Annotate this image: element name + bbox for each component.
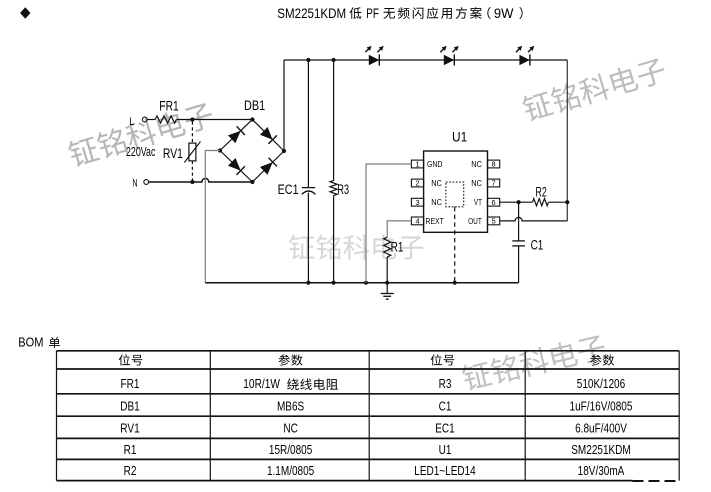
label 220Vac — [126, 145, 155, 159]
svg-text:3: 3 — [415, 198, 419, 207]
svg-text:NC: NC — [431, 178, 442, 188]
BOM header row — [119, 354, 614, 365]
wire R3 bottom lead — [333, 196, 335, 283]
wire R1 to rail — [386, 257, 388, 283]
svg-text:NC: NC — [471, 159, 482, 169]
svg-text:L: L — [129, 116, 134, 128]
label DB1 — [244, 97, 265, 113]
op-amp U1 body and pins — [411, 151, 499, 232]
node pad bottom — [453, 281, 457, 285]
node VT junction — [517, 200, 521, 204]
svg-text:U1: U1 — [439, 442, 452, 457]
svg-text:R3: R3 — [439, 376, 452, 391]
label R3 — [337, 182, 349, 197]
svg-text:C1: C1 — [439, 399, 452, 414]
wire pin6 VT — [500, 201, 533, 203]
wire C1 bottom lead — [518, 246, 520, 283]
svg-text:510K/1206: 510K/1206 — [577, 376, 625, 391]
label R2 — [536, 184, 547, 199]
label BOM — [18, 334, 60, 349]
capacitor C1 — [512, 241, 525, 246]
svg-text:DB1: DB1 — [120, 399, 140, 414]
svg-text:GND: GND — [427, 159, 442, 169]
BOM table grid — [57, 351, 680, 481]
svg-text:RV1: RV1 — [120, 420, 140, 435]
node EC1 bottom — [306, 281, 310, 285]
svg-text:1: 1 — [415, 160, 419, 169]
svg-text:NC: NC — [431, 197, 442, 207]
resistor R2 — [533, 199, 549, 206]
LED D3 — [516, 46, 534, 66]
svg-text:R1: R1 — [124, 442, 137, 457]
wire L to FR1 — [147, 119, 155, 121]
bridge rectifier DB1 — [218, 117, 286, 184]
title text — [277, 5, 522, 21]
wire FR1 to bridge top — [176, 119, 252, 121]
svg-text:LED1~LED14: LED1~LED14 — [414, 463, 476, 478]
wire bridge minus to rail (gray) — [205, 151, 220, 283]
resistor R3 — [330, 181, 337, 196]
node R3 top — [332, 58, 336, 62]
svg-text:R1: R1 — [391, 240, 404, 255]
svg-text:7: 7 — [492, 179, 496, 188]
node R2 right junction — [565, 200, 569, 204]
wire pin1 GND to rail (gray) — [366, 164, 411, 283]
svg-text:6.8uF/400V: 6.8uF/400V — [575, 420, 627, 435]
wire N to bridge bottom with hop — [149, 179, 253, 182]
svg-text:5: 5 — [492, 217, 496, 226]
svg-text:220Vac: 220Vac — [126, 145, 155, 159]
svg-text:DB1: DB1 — [244, 97, 265, 113]
svg-text:1uF/16V/0805: 1uF/16V/0805 — [570, 399, 633, 414]
svg-text:RV1: RV1 — [163, 145, 183, 161]
wire LED return down — [566, 60, 568, 221]
label FR1 — [159, 98, 179, 114]
svg-text:15R/0805: 15R/0805 — [269, 442, 312, 457]
wire EC1 top lead — [307, 60, 309, 187]
svg-text:2: 2 — [415, 179, 419, 188]
svg-text:9W: 9W — [494, 5, 514, 21]
node junction L-RV1 — [190, 117, 194, 121]
node R3 bottom — [332, 281, 336, 285]
svg-text:6: 6 — [492, 198, 496, 207]
svg-text:MB6S: MB6S — [277, 399, 305, 414]
svg-text:U1: U1 — [452, 129, 467, 145]
watermark texts — [66, 55, 668, 391]
label RV1 — [163, 145, 183, 161]
svg-text:R2: R2 — [536, 184, 547, 199]
LED D1 — [365, 46, 383, 66]
terminal N — [132, 178, 148, 190]
wire EC1 bottom lead — [307, 193, 309, 283]
node EC1 top — [306, 58, 310, 62]
svg-text:SM2251KDM: SM2251KDM — [277, 5, 346, 21]
svg-text:OUT: OUT — [468, 216, 482, 226]
svg-text:C1: C1 — [531, 238, 544, 253]
svg-text:REXT: REXT — [426, 216, 445, 226]
LED D2 — [440, 46, 458, 66]
wire bridge plus up — [283, 60, 285, 151]
ground symbol — [381, 283, 394, 299]
node junction N-RV1 — [190, 180, 194, 184]
capacitor EC1 — [302, 188, 316, 195]
svg-text:18V/30mA: 18V/30mA — [578, 463, 625, 478]
svg-text:EC1: EC1 — [278, 182, 299, 197]
wire C1 top lead — [518, 202, 520, 240]
wire R2 to LED return — [549, 201, 568, 203]
label EC1 — [278, 182, 299, 197]
svg-text:N: N — [132, 178, 137, 190]
varistor RV1 dashed branch — [184, 122, 200, 181]
node R1 bottom — [385, 281, 389, 285]
resistor R1 — [384, 237, 391, 257]
resistor FR1 — [155, 116, 176, 123]
svg-text:EC1: EC1 — [435, 420, 455, 435]
svg-text:R3: R3 — [337, 182, 349, 197]
svg-text:PF: PF — [366, 5, 379, 21]
svg-text:1.1M/0805: 1.1M/0805 — [267, 463, 314, 478]
wire bottom rail — [205, 282, 518, 284]
label U1 — [452, 129, 467, 145]
BOM table data — [120, 376, 632, 478]
terminal L — [129, 116, 147, 128]
label C1 — [531, 238, 544, 253]
svg-text:NC: NC — [471, 178, 482, 188]
svg-text:4: 4 — [415, 217, 419, 226]
wire pin4 REXT (gray) — [387, 221, 411, 237]
title bullet diamond — [20, 7, 30, 18]
svg-text:8: 8 — [492, 160, 496, 169]
svg-text:FR1: FR1 — [159, 98, 179, 114]
svg-text:BOM: BOM — [18, 334, 43, 349]
node GND wire bottom — [364, 281, 368, 285]
wire top rail — [284, 59, 567, 61]
label R1 — [391, 240, 404, 255]
wire R3 top lead — [333, 60, 335, 181]
wire exposed pad dashed — [454, 207, 456, 283]
svg-text:VT: VT — [474, 197, 483, 207]
svg-text:R2: R2 — [124, 463, 137, 478]
svg-text:10R/1W: 10R/1W — [243, 376, 280, 391]
svg-text:SM2251KDM: SM2251KDM — [571, 442, 631, 457]
svg-text:NC: NC — [283, 420, 298, 435]
wire pin5 OUT with hop — [500, 217, 568, 220]
svg-text:FR1: FR1 — [121, 376, 140, 391]
